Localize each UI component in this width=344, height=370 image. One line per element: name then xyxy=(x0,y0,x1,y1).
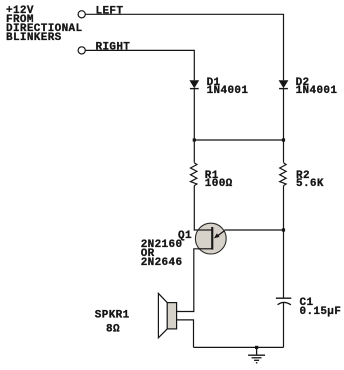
resistor R1 value label xyxy=(205,170,233,190)
svg-text:2N2646: 2N2646 xyxy=(141,257,183,269)
capacitor C1 value label xyxy=(300,297,342,318)
wire left branch diode to resistor xyxy=(193,89,195,163)
svg-text:LEFT: LEFT xyxy=(96,5,124,17)
svg-text:BLINKERS: BLINKERS xyxy=(6,32,62,44)
terminal LEFT xyxy=(78,11,85,18)
diode D1 xyxy=(189,80,199,89)
wire right branch resistor to capacitor xyxy=(283,186,285,298)
wire RIGHT input to left branch xyxy=(86,50,195,80)
svg-text:1N4001: 1N4001 xyxy=(207,85,249,97)
svg-text:100Ω: 100Ω xyxy=(205,178,233,190)
speaker SPKR1 xyxy=(158,293,176,337)
wire LEFT input to right branch xyxy=(86,14,284,80)
svg-text:1N4001: 1N4001 xyxy=(296,85,338,97)
diode D1 value label xyxy=(207,77,249,97)
wire capacitor bottom to ground rail xyxy=(283,303,285,348)
diode D2 xyxy=(279,80,289,89)
transistor Q1 xyxy=(195,223,226,254)
ground xyxy=(248,347,265,362)
resistor R1 xyxy=(191,163,197,186)
svg-text:SPKR1: SPKR1 xyxy=(95,310,130,322)
wire right branch diode to resistor xyxy=(283,89,285,163)
node junction dots xyxy=(193,138,285,349)
node +12V source label xyxy=(6,5,83,44)
wire emitter horizontal xyxy=(225,229,284,231)
terminal RIGHT xyxy=(78,47,85,54)
resistor R2 xyxy=(280,163,286,186)
wire left branch resistor to Q1 B2 xyxy=(194,186,212,230)
capacitor C1 xyxy=(276,298,291,305)
resistor R2 value label xyxy=(296,170,324,190)
diode D2 value label xyxy=(296,77,338,97)
wire ground rail xyxy=(194,346,284,348)
wire speaker bottom terminal to ground rail xyxy=(177,320,194,348)
svg-text:5.6K: 5.6K xyxy=(296,178,324,190)
svg-text:0.15µF: 0.15µF xyxy=(300,306,342,318)
speaker SPKR1 value label xyxy=(95,310,130,336)
svg-text:8Ω: 8Ω xyxy=(106,324,120,336)
wire Q1 B1 down to speaker xyxy=(177,249,212,312)
wire cross connector at y=140 xyxy=(194,139,283,141)
transistor Q1 label xyxy=(141,230,192,269)
svg-text:RIGHT: RIGHT xyxy=(96,41,131,53)
